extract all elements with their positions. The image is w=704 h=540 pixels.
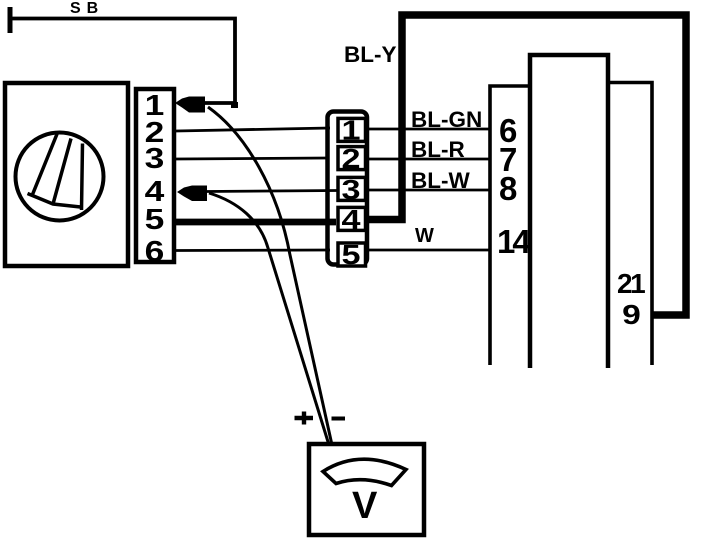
svg-text:3: 3 (145, 142, 165, 174)
svg-text:14: 14 (497, 223, 531, 260)
control unit inner body (530, 55, 608, 368)
wire pin4 arrow to mid pin3 (206, 191, 338, 192)
voltmeter box (309, 444, 424, 535)
thick wire pin5 to mid pin4 (176, 219, 336, 226)
wire BL-W mid pin3 to pin 8 (366, 189, 490, 192)
svg-text:3: 3 (341, 174, 360, 205)
svg-text:BL-GN: BL-GN (411, 107, 482, 132)
svg-text:BL-Y: BL-Y (344, 42, 397, 67)
svg-text:8: 8 (499, 170, 517, 207)
terminal SB bar (8, 7, 13, 33)
svg-text:4: 4 (341, 204, 361, 235)
probe arrow at pin 4 (177, 186, 207, 202)
svg-text:6: 6 (145, 235, 165, 267)
middle connector pin 2 box (338, 147, 366, 170)
middle connector outer shell (328, 112, 368, 265)
svg-text:W: W (415, 225, 434, 247)
svg-text:5: 5 (145, 203, 165, 235)
svg-text:5: 5 (341, 239, 360, 270)
svg-text:1: 1 (341, 114, 360, 145)
wire SB from terminal to arrow at pin 1 (10, 19, 235, 104)
control unit left bracket (490, 86, 528, 365)
middle connector pin 1 box (338, 118, 366, 141)
middle connector pin 3 box (338, 177, 366, 200)
middle connector pin 4 box (338, 207, 366, 230)
svg-text:V: V (352, 485, 378, 527)
svg-text:21: 21 (617, 268, 645, 299)
wire pin2 to mid pin1 (176, 128, 330, 131)
wire BL-R mid pin2 to pin 7 (366, 158, 490, 161)
probe arrow at pin 1 (175, 97, 205, 113)
wire BL-GN mid pin1 to pin 6 (366, 128, 490, 131)
voltmeter lead to pin 1 arrow (208, 107, 332, 445)
svg-text:2: 2 (341, 143, 360, 174)
middle connector pin 5 box (338, 243, 366, 266)
fuel gauge unit box (5, 83, 128, 266)
wire pin6 to mid pin5 (176, 249, 330, 252)
control unit right bracket (610, 83, 652, 366)
svg-text:SB: SB (70, 0, 104, 17)
gauge symbol circle (16, 133, 104, 221)
wire W mid pin5 to pin 14 (366, 249, 490, 252)
svg-text:BL-R: BL-R (411, 137, 465, 162)
wire pin3 to mid pin2 (176, 158, 328, 159)
label plus (295, 412, 314, 425)
svg-text:BL-W: BL-W (411, 168, 470, 193)
voltmeter gauge arc (323, 459, 406, 485)
connector strip left pins 1-6 (136, 89, 174, 262)
thick wire BL-Y from mid pin4 up over to pin 9 (366, 15, 686, 315)
gauge symbol internal lines (28, 134, 83, 210)
label minus (332, 417, 346, 421)
voltmeter lead to pin 4 arrow (209, 193, 329, 445)
svg-text:9: 9 (622, 299, 641, 331)
